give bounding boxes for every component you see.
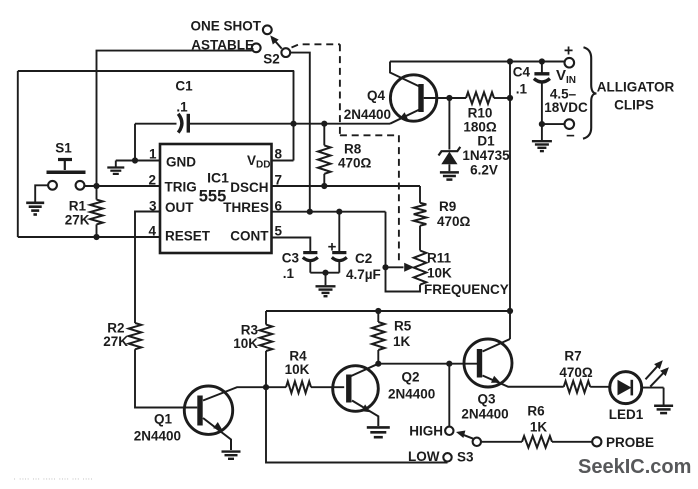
node TRIG junction [93, 183, 99, 189]
svg-text:RESET: RESET [165, 229, 211, 244]
wire left frame vertical [17, 71, 19, 237]
label ALLIGATOR [597, 80, 675, 95]
node ASTABLE contact of S2 [252, 43, 261, 52]
node C4 top junction [539, 58, 545, 64]
wire Q2 collector to Q3 base [378, 363, 477, 365]
label R2 [103, 321, 128, 350]
node ONE SHOT contact of S2 [263, 25, 272, 34]
wire DSCH to R9 [419, 186, 421, 203]
wire R9 to R11 [419, 226, 421, 251]
label 4.5- [550, 87, 577, 102]
node R5 top junction [375, 308, 381, 314]
svg-text:CONT: CONT [230, 229, 269, 244]
label plus sign [564, 43, 573, 60]
node R10/rail junction [507, 95, 513, 101]
label ASTABLE [191, 38, 254, 53]
svg-text:R11: R11 [427, 251, 452, 266]
wire R4 to Q2 base [311, 386, 344, 388]
wire top V+ rail [390, 61, 564, 63]
wire C1 drop to pin 1 node [134, 124, 136, 161]
svg-text:TRIG: TRIG [165, 180, 197, 195]
pin 8 VDD [247, 147, 283, 171]
svg-text:R1: R1 [69, 199, 87, 214]
label R8 [338, 142, 372, 171]
ground at S1 [26, 203, 44, 215]
svg-text:R7: R7 [564, 349, 581, 364]
dashed linkage S2 to R11 wiper [292, 44, 399, 261]
node V- terminal [565, 119, 575, 129]
wire R5 bottom stem [377, 350, 379, 364]
ground at C2/C3 [316, 286, 336, 296]
label CLIPS [614, 98, 654, 113]
transistor Q1 2N4400 [184, 386, 232, 434]
label 18VDC [544, 100, 588, 115]
resistor R4 [286, 381, 311, 393]
label C2 plus sign [328, 239, 337, 256]
label IC1 [199, 170, 229, 206]
label HIGH [409, 424, 443, 439]
node Q4 base/D1/R10 junction [446, 95, 452, 101]
wire VDD drop to pin 8 column [293, 71, 295, 161]
node C2 top junction [336, 209, 342, 215]
svg-text:180Ω: 180Ω [463, 120, 497, 135]
wire HIGH drop [448, 364, 450, 427]
pin 5 CONT [230, 224, 282, 244]
node C2/C3 ground junction [322, 270, 328, 276]
svg-text:R8: R8 [344, 142, 362, 157]
svg-text:−: − [566, 128, 575, 145]
svg-text:DSCH: DSCH [230, 180, 268, 195]
resistor R5 [372, 322, 385, 350]
wire LOW branch [266, 387, 448, 462]
svg-text:555: 555 [199, 188, 227, 206]
label C2 [346, 251, 381, 282]
svg-text:SeekIC.com: SeekIC.com [578, 456, 691, 478]
node R3/R4/Q1 junction [263, 384, 269, 390]
label C1 value [175, 79, 193, 115]
wire Q2 emitter with arrow [352, 401, 378, 427]
svg-text:2N4400: 2N4400 [461, 407, 508, 422]
watermark SeekIC.com [578, 456, 691, 478]
svg-text:S1: S1 [55, 141, 72, 156]
node HIGH tap junction [446, 361, 452, 367]
wire C4 ground stem [541, 124, 543, 140]
resistor R2 [129, 323, 142, 349]
wire R11 wiper [386, 263, 415, 272]
switch S2 wiper arrow [270, 35, 282, 48]
node PROBE terminal [592, 437, 601, 446]
svg-text:Q2: Q2 [402, 370, 420, 385]
node R11 wiper junction [382, 264, 388, 270]
node pin1/C1 junction [132, 157, 138, 163]
wire Q3 collector [483, 339, 511, 352]
wire VDD top rail of left frame [18, 70, 294, 72]
svg-text:C1: C1 [175, 79, 193, 94]
potentiometer R11 [414, 251, 427, 285]
capacitor C1 [178, 114, 188, 133]
label FREQUENCY [424, 282, 509, 297]
wire DSCH line [272, 185, 421, 187]
label Q3 [461, 392, 508, 422]
ground at Q1 [222, 452, 241, 459]
label Q4 [344, 88, 391, 122]
label D1 [462, 134, 510, 178]
svg-text:C3: C3 [282, 251, 300, 266]
svg-text:FREQUENCY: FREQUENCY [424, 282, 509, 297]
label R7 [559, 349, 593, 381]
label C4 [513, 65, 531, 97]
switch S1 pushbutton [47, 160, 86, 190]
ground at Q2 [367, 427, 390, 437]
label Q2 [388, 370, 435, 402]
wire Q4 collector [390, 62, 420, 87]
node R8 top junction [321, 121, 327, 127]
pin 7 DSCH [230, 173, 282, 196]
resistor R8 [318, 145, 331, 173]
node Q2 collector junction [375, 361, 381, 367]
svg-text:10K: 10K [233, 336, 258, 351]
node R8 bottom junction [321, 183, 327, 189]
svg-text:.1: .1 [176, 100, 188, 115]
svg-text:10K: 10K [285, 362, 310, 377]
wire S1 to ground [35, 185, 48, 201]
svg-text:1N4735: 1N4735 [462, 148, 510, 163]
wire R1 bottom stem [96, 224, 98, 237]
label R3 [233, 323, 258, 352]
diode D1 zener 1N4735 [439, 147, 461, 171]
svg-text:IC1: IC1 [207, 170, 229, 186]
node R1/RESET junction [93, 234, 99, 240]
svg-text:Q3: Q3 [477, 392, 496, 407]
ground at IC pin 1 [107, 168, 124, 174]
svg-text:CLIPS: CLIPS [614, 98, 654, 113]
wire C2 top stem [338, 212, 340, 252]
svg-text:4.7µF: 4.7µF [346, 267, 381, 282]
transistor Q2 2N4400 [333, 366, 379, 412]
pin 2 TRIG [148, 173, 196, 195]
pin 6 THRES [223, 199, 282, 216]
label R9 [437, 199, 471, 229]
wire V+ vertical rail [509, 62, 511, 312]
label S2 [263, 52, 280, 67]
LED light arrows [646, 360, 669, 386]
node C4 bottom junction [539, 121, 545, 127]
svg-text:Q4: Q4 [367, 88, 386, 103]
wire RESET line (frame bottom to IC pin 4) [18, 236, 160, 238]
wire D1 top stem [448, 98, 450, 150]
transistor Q3 2N4400 [464, 339, 512, 387]
svg-text:1: 1 [149, 147, 157, 162]
label R1 [65, 199, 90, 228]
svg-text:THRES: THRES [223, 200, 269, 215]
wire R8 bottom stem [323, 174, 325, 186]
wire Q4 base [424, 97, 466, 99]
resistor R10 [466, 92, 494, 104]
svg-text:27K: 27K [103, 334, 128, 349]
svg-text:2N4400: 2N4400 [388, 387, 435, 402]
wire Q2 collector [350, 364, 378, 377]
wire LED to ground [642, 388, 664, 405]
svg-text:1K: 1K [530, 420, 548, 435]
svg-text:GND: GND [166, 155, 196, 170]
svg-text:LED1: LED1 [609, 407, 644, 422]
wire CONT to C3 [272, 238, 311, 252]
wire rail to Q3 collector [509, 311, 511, 339]
wire C2 bottom stem [338, 261, 340, 273]
wire TRIG line [84, 185, 160, 187]
ground at LED [654, 406, 673, 413]
wire C3 bottom stem [310, 261, 339, 273]
svg-text:R9: R9 [439, 199, 456, 214]
label PROBE [606, 435, 654, 450]
svg-text:2N4400: 2N4400 [344, 107, 391, 122]
ground at C4 [532, 141, 552, 151]
wire R11 bottom loop [386, 267, 421, 291]
wire C1 rail left segment [135, 123, 177, 125]
label S3 [457, 450, 474, 465]
svg-text:8: 8 [275, 147, 283, 162]
node LOW contact [443, 453, 451, 461]
wire R3 top stem [265, 311, 267, 325]
svg-text:D1: D1 [477, 134, 495, 149]
label C3 [282, 251, 300, 282]
label R4 [285, 349, 310, 378]
capacitor C4 [534, 62, 550, 125]
wire C1 rail right segment (to Q4 emitter) [190, 123, 391, 125]
svg-text:5: 5 [275, 224, 283, 239]
svg-text:OUT: OUT [165, 200, 194, 215]
svg-text:· ∙∙∙∙ ∙∙∙ ∙∙∙∙∙ ∙∙∙∙ ∙∙∙ ∙∙∙∙: · ∙∙∙∙ ∙∙∙ ∙∙∙∙∙ ∙∙∙∙ ∙∙∙ ∙∙∙∙ [13, 474, 93, 485]
resistor R9 [414, 203, 427, 226]
svg-text:2N4400: 2N4400 [134, 429, 181, 444]
label VIN [556, 67, 576, 86]
ground at D1 [440, 172, 459, 179]
svg-text:R10: R10 [468, 106, 493, 121]
label R10 [463, 106, 497, 135]
node rail/vertical junction [507, 58, 513, 64]
svg-text:470Ω: 470Ω [559, 365, 593, 380]
capacitor C2 [332, 253, 347, 261]
wire bottom rail [266, 310, 510, 312]
svg-text:R6: R6 [527, 404, 545, 419]
svg-text:S2: S2 [263, 52, 280, 67]
wire pin 1 to ground [116, 161, 160, 167]
wire pin 8 stub [272, 160, 294, 162]
svg-text:LOW: LOW [408, 449, 440, 464]
svg-text:4: 4 [148, 224, 156, 239]
label Q1 [134, 412, 181, 444]
label S1 [55, 141, 72, 156]
resistor R7 [564, 381, 591, 393]
switch S3 wiper arrow [456, 431, 473, 439]
svg-text:10K: 10K [427, 266, 452, 281]
wire S3 common to R6 [481, 441, 522, 443]
svg-text:470Ω: 470Ω [437, 214, 471, 229]
wire minus terminal [542, 123, 565, 125]
label R6 [527, 404, 547, 435]
wire R8 top stem [323, 124, 325, 146]
svg-text:470Ω: 470Ω [338, 156, 372, 171]
svg-text:Q1: Q1 [154, 412, 173, 427]
svg-text:PROBE: PROBE [606, 435, 654, 450]
svg-text:.1: .1 [516, 82, 528, 97]
label LED1 [609, 407, 644, 422]
label LOW [408, 449, 440, 464]
svg-text:ALLIGATOR: ALLIGATOR [597, 80, 675, 95]
label R11 [427, 251, 452, 281]
wire R3 bottom stem [265, 351, 267, 387]
svg-text:6.2V: 6.2V [470, 163, 498, 178]
node S2 vertical on THRES [307, 209, 313, 215]
pin 1 GND [149, 147, 196, 170]
svg-text:C2: C2 [355, 251, 372, 266]
wire R6 to probe [552, 441, 592, 443]
wire Q4 emitter with arrow [390, 110, 420, 124]
label ONE SHOT [190, 19, 261, 34]
transistor Q4 2N4400 [390, 75, 436, 121]
wire R2 to Q1 base [135, 349, 197, 407]
pin 3 OUT [149, 199, 194, 216]
wire OUT to R2 [135, 212, 160, 324]
LED LED1 [610, 372, 642, 404]
svg-text:.1: .1 [283, 266, 295, 281]
pin 4 RESET [148, 224, 210, 244]
wire R1 top stem [96, 186, 98, 200]
switch S3 common terminal [473, 438, 481, 446]
svg-text:ASTABLE: ASTABLE [191, 38, 254, 53]
wire ASTABLE contact to TRIG node [97, 51, 252, 186]
faint footer text [13, 474, 93, 485]
svg-text:HIGH: HIGH [409, 424, 443, 439]
wire ground stem C2/C3 [325, 273, 327, 286]
svg-text:18VDC: 18VDC [544, 100, 588, 115]
wire Q3 emitter with arrow [483, 376, 564, 387]
node VDD rail junction at C1 [290, 121, 296, 127]
svg-text:1K: 1K [393, 334, 411, 349]
svg-text:S3: S3 [457, 450, 474, 465]
svg-text:R5: R5 [394, 319, 412, 334]
wire Q1 emitter with arrow [203, 418, 231, 450]
resistor R3 [260, 325, 273, 351]
wire S2 common to THRES line [290, 53, 310, 212]
wire THRES line [272, 212, 386, 268]
svg-text:ONE SHOT: ONE SHOT [190, 19, 261, 34]
resistor R1 [90, 200, 103, 225]
node HIGH contact [445, 427, 453, 435]
switch S2 common terminal [281, 48, 290, 57]
label R5 [393, 319, 412, 350]
svg-text:27K: 27K [65, 213, 90, 228]
label minus sign [566, 128, 575, 145]
capacitor C3 [303, 253, 318, 261]
svg-text:C4: C4 [513, 65, 531, 80]
wire R10 to V+ rail [494, 97, 510, 99]
wire R5 top stem [377, 311, 379, 322]
resistor R6 [522, 436, 552, 448]
node V+ terminal [565, 58, 575, 68]
wire Q1 collector [203, 387, 286, 400]
brace alligator clips [583, 47, 597, 138]
op-amp IC1 555 timer box [160, 144, 272, 253]
node rail bottom junction [507, 308, 513, 314]
wire R7 to LED [590, 386, 610, 388]
